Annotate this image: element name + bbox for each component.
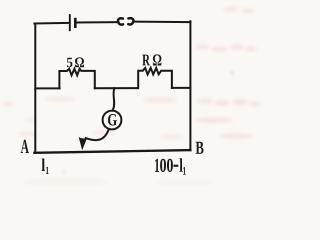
label 100 digit 0 [160,159,166,172]
wire top left segment [34,22,68,25]
label minus sign [174,165,179,167]
smudge marks (scan artifacts) [3,6,261,185]
node B [196,142,204,154]
label l of 100 minus l1 [180,158,183,172]
label 100 digit 1 [155,159,159,172]
wire baseline left segment [35,87,59,89]
label 5 [67,58,73,67]
wire junction to galvanometer [113,88,115,110]
wire baseline middle segment [95,87,138,89]
label R [142,55,150,66]
wire key to top right corner [134,21,191,24]
label l1 letter [42,159,45,172]
battery cell short plate [74,19,77,27]
node A [21,140,29,153]
key hook right [128,18,133,24]
label ohm for R [153,54,162,65]
wire left vertical [34,24,36,153]
wire right vertical [189,21,191,150]
label subscript 1 of 100 minus l1 [183,167,186,175]
key hook left [118,18,123,24]
label l1 subscript [46,167,49,174]
label G galvanometer [108,114,117,126]
label ohm for 5 [75,57,84,67]
resistor 5-ohm bump with zigzag [59,69,94,89]
battery cell long plate [69,15,71,30]
label 100 digit 0 second [167,159,173,172]
wire battery to key [77,21,118,23]
wire baseline right segment [172,87,191,89]
wire bottom slide wire A to B [34,150,190,153]
wire galvanometer to jockey [86,129,109,140]
galvanometer U1 circle [103,111,122,130]
resistor R-ohm bump with zigzag [138,68,172,88]
jockey arrow head [79,137,88,150]
